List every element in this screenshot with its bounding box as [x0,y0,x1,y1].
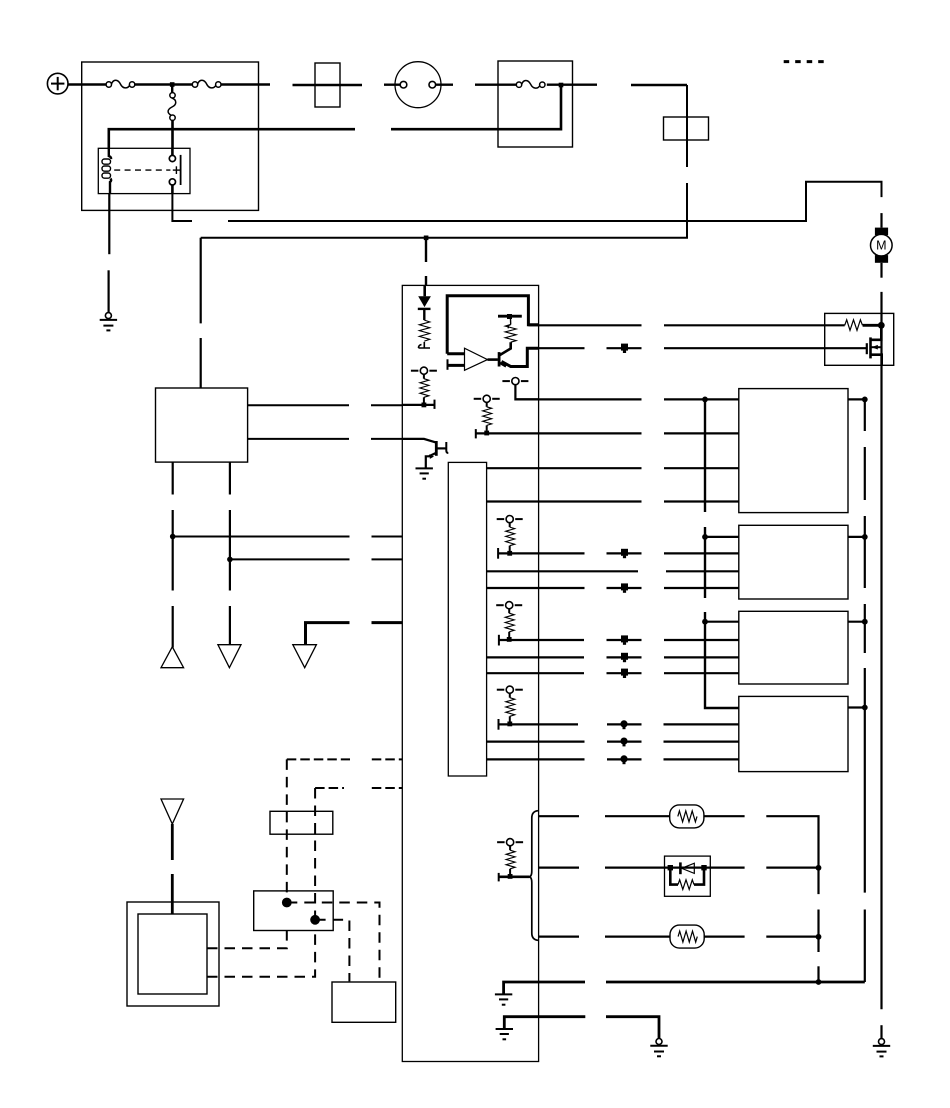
inline connector on row r11 [621,653,628,662]
transistor Q1 [488,358,498,361]
junction module feed [424,236,429,241]
wire r4 [487,500,739,502]
box1 output wire [848,398,865,400]
box4 output wire [848,706,865,708]
probe sensor F [497,839,523,879]
terminal T1 (up triangle) [161,647,184,668]
fuse F4 [516,80,545,88]
node dot b3 [816,934,822,940]
input 1 [447,352,464,355]
wire b2 (diode row) [539,866,819,868]
relay coil [109,148,111,159]
wire b3 (lamp row 2) [539,935,819,937]
under-hood fuse box [82,62,259,210]
wire l5 (thick) [306,623,403,645]
ground G1 [100,313,117,331]
node dot b2 [816,865,822,871]
node dot bus top [702,397,708,403]
bus segment 1 [704,399,706,512]
wire r10 [499,635,739,646]
dashed drop V1 [286,759,288,902]
connector C102 [664,117,709,140]
dashed wire H1 [287,758,403,760]
fuse box 2 [498,61,573,147]
dashed link keyless out 2 [207,931,315,977]
dashed drop V2 [314,788,316,920]
battery B1 [47,73,68,94]
wire left unit drop 1 [172,462,174,647]
lamp L2 [670,925,704,948]
keyless receiver unit (double box) [127,902,219,1006]
wire r8 [487,587,739,589]
MOSFET Q3 [867,325,882,365]
node dot l3 [170,534,176,540]
wire l1 (left unit out 1) [248,404,403,406]
wire l4 [230,558,402,560]
ground G5 (module gnd 2) [496,1029,513,1039]
probe sensor E [497,686,523,726]
brace (wire bundle) [529,811,538,941]
keyless antenna terminal (down triangle) [161,799,184,824]
inline connector on row r10 [621,635,628,644]
relay RY1 [98,148,190,193]
dashed tie line x=864.8 [864,399,866,982]
motor M1 [871,228,893,263]
terminal T2 (down triangle) [218,645,241,668]
wire relay feed y=129 [109,87,561,148]
wire r2 [539,432,739,434]
antenna lead [171,824,174,914]
wire m1 [528,324,844,326]
security unit box [332,982,396,1022]
right box 2 [739,525,848,599]
node dot b4 [816,979,822,985]
inline connector on row r12 [621,669,628,678]
dashed link S1 right [287,903,380,982]
svg-text:M: M [876,239,886,253]
wire motor feed x=881.5 [880,213,882,1039]
op-amp sub-circuit U1 [447,296,538,371]
probe sensor C [474,395,500,435]
dashed link keyless out 1 [207,931,287,949]
bus segment 3 [705,612,739,708]
wire l1 into module + bar terminal [402,400,434,409]
wire b5 (ground rail 2) [504,1017,659,1039]
fuse F3 (vertical) [168,86,176,148]
wire battery bus y=84.5 [68,83,687,86]
input 2 with bar terminal [447,359,449,370]
wire m2 [539,347,867,349]
right box 3 [739,611,848,684]
ground G6 [650,1039,667,1057]
feedback loop wire (thick box) [447,296,538,354]
lamp L1 [670,805,704,828]
terminal T3 (down triangle) [293,645,317,668]
node dot box3 top [702,619,708,625]
dashed stub top right [784,60,829,63]
inner connector strip (tall box) [448,462,486,776]
splice dot S1 [282,898,292,908]
ground G3 (Q2 emitter) [416,468,433,478]
wire l2 (left unit out 2) [248,438,403,440]
wire r11 [487,656,739,658]
node dot box2 top [702,534,708,540]
probe sensor D [496,602,522,642]
wire left unit drop 2 [229,462,231,645]
relay contact terminals [171,148,174,155]
wire r6 [498,548,739,559]
splice dot S2 [310,915,320,925]
wire F to brace [499,873,530,882]
wire r14 [499,719,739,730]
transistor Q2 [402,439,448,468]
box2 output wire [848,536,865,538]
inline connector on row r15 [620,738,627,747]
box3 output wire [848,621,865,623]
amp triangle [465,348,488,370]
wire r5 [705,536,739,538]
resistor R1 (below D1) [419,320,431,348]
right box 4 [739,696,848,771]
wire relay coil to ground [107,194,110,313]
probe sensor G [497,516,523,556]
ignition switch SW1 [395,62,441,108]
wire ignition feed y=237.8 [201,183,687,238]
wire r16 [487,758,739,760]
junction at fuse F4 output [559,83,564,88]
probe sensor A [411,367,437,407]
inline connector on row r16 [620,755,627,764]
node dot l4 [227,557,233,563]
control module (main box) [402,285,538,1061]
diode/resistor pack D2 [665,856,711,896]
fuse F1 [106,80,135,88]
dashed drop x=818.5 [817,910,819,983]
probe sensor B (no coil) [502,378,538,400]
left control unit box [156,388,248,462]
wire control-unit stem x=201 [200,238,202,388]
wire b1 (lamp row 1) [539,816,819,894]
wire module feed branch [425,240,427,285]
resistor R3 [845,320,863,331]
collector resistor R2 [505,325,516,343]
connector C202 [254,891,334,931]
wire r7 [487,570,739,572]
diode D1 [418,285,431,320]
inline connector on row r6 [621,549,628,558]
wire r3 [487,467,739,469]
node dot FET drain [878,322,885,329]
supply rail stub [498,315,522,318]
output return wire [502,348,539,366]
wire r12 [487,672,739,674]
dashed wire H2 [315,787,402,789]
wire r15 [487,740,739,742]
inline connector on row r14 [620,720,627,729]
wire ignition drop x=687 [686,85,688,167]
relay contact dashed link [114,169,170,171]
connector C201 [270,811,333,834]
wire l3 [173,536,403,538]
wire relay output y=221 [172,182,881,221]
wire r9 [705,621,739,623]
bus segment 2 [704,527,706,598]
ground G4 (module gnd 1) [495,994,512,1004]
MOSFET box [825,313,894,365]
wire r1 [515,398,738,400]
relay contact arm [180,155,182,185]
junction at fuse tap [170,82,175,87]
connector C101 [315,63,340,107]
wire b4 (ground rail) [504,982,865,994]
ground G2 (bottom right) [873,1039,890,1057]
inline connector on row r8 [621,583,628,592]
fuse F2 [192,80,221,88]
inline connector on row m2 [621,344,628,353]
dashed link S2 right [315,920,349,982]
right box 1 [739,389,848,513]
